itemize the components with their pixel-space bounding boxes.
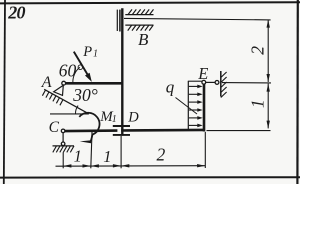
moment M1 arrowhead <box>80 140 92 143</box>
pin circle E top <box>202 80 206 84</box>
svg-text:A: A <box>41 74 52 91</box>
svg-text:1: 1 <box>93 49 98 60</box>
support B guide line 2 <box>119 10 121 32</box>
load arrowheads <box>197 85 202 128</box>
arrow down at E level <box>267 74 270 82</box>
svg-text:2: 2 <box>247 46 267 55</box>
slider D lower bar <box>113 134 130 136</box>
extension line beam level right <box>207 130 271 132</box>
bottom extension line D <box>120 136 122 168</box>
svg-text:B: B <box>138 30 149 49</box>
top extension line (from B to dimension) <box>124 18 271 20</box>
support B upper hatching <box>128 9 154 14</box>
arrow up at top <box>267 20 270 28</box>
svg-text:P: P <box>82 44 92 60</box>
right dimension line upper (2) <box>267 20 269 82</box>
support C ground line <box>53 145 75 147</box>
slider D upper bar <box>113 125 130 127</box>
support C link rod <box>62 133 64 142</box>
bottom extension line E member <box>204 132 206 168</box>
svg-text:1: 1 <box>103 147 111 166</box>
svg-text:1: 1 <box>112 114 117 125</box>
svg-text:q: q <box>166 77 175 96</box>
svg-text:E: E <box>197 64 208 83</box>
support B upper plate <box>125 14 153 16</box>
support B lower plate <box>125 24 153 26</box>
support A hatching <box>42 90 63 105</box>
arrow down at beam level <box>267 121 270 129</box>
30 degree arc <box>75 106 78 114</box>
load arrow 6 <box>189 124 199 126</box>
distributed load boundary line <box>187 81 189 129</box>
svg-text:2: 2 <box>157 144 166 164</box>
bottom extension line F <box>91 132 92 168</box>
support A triangle <box>54 85 64 95</box>
load arrow 1 <box>189 86 199 125</box>
bottom dimension line <box>56 165 206 168</box>
svg-text:C: C <box>49 119 60 136</box>
svg-text:30°: 30° <box>72 85 98 105</box>
svg-text:60°: 60° <box>59 61 83 81</box>
E wall pin circle <box>215 81 219 85</box>
arm AD (horizontal member) <box>66 82 123 85</box>
svg-text:D: D <box>127 110 139 126</box>
support A incline surface <box>44 89 89 114</box>
svg-text:1: 1 <box>248 99 268 108</box>
30 degree reference line <box>50 113 89 115</box>
load arrow 4 <box>189 109 199 111</box>
support B guide line 1 <box>116 10 118 31</box>
support C ground hatching <box>53 146 74 153</box>
arrow up below E level <box>267 84 270 92</box>
E wall hatching <box>221 72 227 98</box>
column BD (vertical member) <box>121 8 123 135</box>
load arrow 3 <box>189 101 199 103</box>
q leader line <box>176 98 198 115</box>
border frame right <box>296 0 299 184</box>
distributed load top edge <box>188 80 202 82</box>
support C lower pin circle <box>61 142 65 146</box>
moment M1 arc <box>79 113 99 141</box>
pin circle A <box>62 81 66 85</box>
bottom dimension arrowheads <box>63 164 205 168</box>
60 degree arc <box>73 67 80 83</box>
border frame bottom <box>0 176 300 178</box>
svg-text:20: 20 <box>7 2 25 22</box>
support B lower hatching <box>128 25 154 31</box>
force P1 arrowhead <box>85 73 92 82</box>
bottom extension line C <box>62 152 64 168</box>
extension line E level <box>222 82 271 84</box>
right member E (vertical) <box>203 84 206 132</box>
pin circle C <box>61 129 65 133</box>
E wall line <box>220 71 222 97</box>
E link rod <box>206 81 215 83</box>
border frame left <box>4 0 5 184</box>
right dimension line lower (1) <box>267 84 269 129</box>
svg-text:1: 1 <box>74 147 82 166</box>
force P1 line <box>74 52 89 77</box>
border frame top <box>0 2 300 3</box>
beam CE right part <box>121 129 205 132</box>
beam CE left part <box>65 129 118 132</box>
load arrow 2 <box>189 93 199 95</box>
load arrow 5 <box>189 117 199 119</box>
